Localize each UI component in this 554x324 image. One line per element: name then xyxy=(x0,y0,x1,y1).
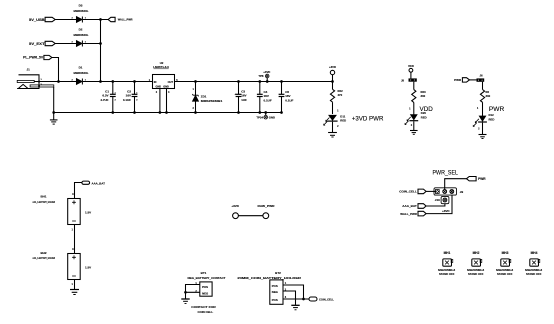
svg-text:MH4: MH4 xyxy=(531,251,538,255)
junction xyxy=(99,18,102,21)
svg-text:GND: GND xyxy=(163,86,169,89)
battery BH2 xyxy=(33,248,92,286)
wire xyxy=(445,179,467,190)
svg-text:NEG: NEG xyxy=(202,291,208,295)
mount MH2 xyxy=(467,251,485,276)
wire xyxy=(470,79,477,81)
svg-text:330: 330 xyxy=(486,94,491,98)
ground xyxy=(410,131,418,135)
svg-text:330: 330 xyxy=(421,94,426,98)
wire xyxy=(186,285,200,293)
svg-text:5V_USB: 5V_USB xyxy=(29,18,45,22)
junction xyxy=(184,291,187,294)
mount MH1 xyxy=(438,251,456,276)
ground xyxy=(328,133,337,138)
svg-text:1.5V: 1.5V xyxy=(85,210,91,214)
svg-text:20MM_COIN_BATTERY_HOLDER: 20MM_COIN_BATTERY_HOLDER xyxy=(237,276,301,280)
wire main rail xyxy=(83,81,153,83)
svg-text:COIN_CELL: COIN_CELL xyxy=(319,298,334,302)
junction xyxy=(57,80,60,83)
node VDD supply xyxy=(408,64,414,79)
svg-text:D11: D11 xyxy=(340,114,345,118)
svg-text:BH1: BH1 xyxy=(40,195,46,199)
battery BH1 xyxy=(33,193,92,232)
wire xyxy=(283,291,296,305)
node PWR input xyxy=(454,78,469,82)
wire xyxy=(482,103,484,116)
LED D20 xyxy=(405,108,427,127)
svg-text:CONTACT FOR: CONTACT FOR xyxy=(191,305,216,309)
svg-text:470: 470 xyxy=(338,93,343,97)
wire xyxy=(74,280,76,290)
note text xyxy=(191,305,216,314)
svg-text:0.1UF: 0.1UF xyxy=(123,98,131,102)
svg-text:RED: RED xyxy=(421,116,427,120)
resistor R22 xyxy=(330,89,343,103)
holder BT2 xyxy=(237,271,301,305)
jumper J6 xyxy=(477,73,485,82)
svg-text:D3: D3 xyxy=(79,3,83,7)
svg-text:PWR: PWR xyxy=(478,177,486,181)
node PL_PWR_5V xyxy=(23,55,52,59)
svg-text:POS: POS xyxy=(202,285,208,289)
wire xyxy=(83,43,101,45)
diode D2 xyxy=(72,27,89,46)
svg-text:AAA_1-BATTERY_HOLDER: AAA_1-BATTERY_HOLDER xyxy=(33,256,56,260)
svg-text:1.5V: 1.5V xyxy=(85,265,91,269)
svg-text:MBR0520L: MBR0520L xyxy=(74,33,89,37)
wire xyxy=(166,89,168,113)
svg-text:TP6: TP6 xyxy=(258,74,264,78)
wire xyxy=(159,89,161,113)
svg-text:+3VD PWR: +3VD PWR xyxy=(352,116,384,123)
junction xyxy=(302,298,305,301)
capacitor C5 xyxy=(279,80,294,114)
wire xyxy=(83,19,108,21)
resistor R20 xyxy=(412,90,426,103)
mount MH4 xyxy=(525,251,543,276)
node 5V_USB xyxy=(29,17,55,22)
wire xyxy=(283,285,304,299)
node COIN_CELL input xyxy=(399,189,426,194)
svg-text:PWR: PWR xyxy=(454,78,462,82)
ground xyxy=(50,113,58,125)
wire xyxy=(34,81,76,83)
svg-text:J5: J5 xyxy=(401,78,405,82)
svg-text:GND: GND xyxy=(156,86,162,89)
wire xyxy=(332,122,334,133)
svg-text:POS: POS xyxy=(272,284,278,288)
svg-text:MH1: MH1 xyxy=(444,251,451,255)
svg-text:RED: RED xyxy=(489,117,495,121)
svg-text:J1: J1 xyxy=(27,68,31,72)
contact BT1 xyxy=(188,271,226,296)
header J10 xyxy=(435,196,449,203)
wire main rail out xyxy=(175,81,333,83)
svg-text:GND: GND xyxy=(269,116,275,120)
capacitor C1 xyxy=(100,80,116,114)
svg-text:PL_PWR_5V: PL_PWR_5V xyxy=(23,56,44,60)
jumper J5 xyxy=(401,78,417,82)
svg-text:D2: D2 xyxy=(79,27,83,31)
ground xyxy=(70,290,79,295)
svg-text:AAA_1-BATTERY_HOLDER: AAA_1-BATTERY_HOLDER xyxy=(33,200,56,204)
regulator U2 xyxy=(149,61,178,94)
node +3VD loop xyxy=(231,204,239,219)
svg-text:0.1UF: 0.1UF xyxy=(285,98,293,102)
node AAA_BAT tag xyxy=(75,181,106,198)
svg-text:BT1: BT1 xyxy=(201,271,207,275)
svg-text:5V_EXT: 5V_EXT xyxy=(29,42,45,46)
svg-text:MBR0520L: MBR0520L xyxy=(74,9,89,13)
wire xyxy=(426,190,435,192)
svg-text:MBR0520L: MBR0520L xyxy=(74,71,89,75)
svg-text:4.7UF: 4.7UF xyxy=(100,98,108,102)
connector J1 xyxy=(17,68,54,89)
junction xyxy=(99,42,102,45)
wire xyxy=(413,121,415,130)
node WALL_PWR input xyxy=(400,211,426,216)
svg-text:COIN CELL: COIN CELL xyxy=(198,310,214,314)
svg-text:+3VD: +3VD xyxy=(329,65,336,69)
wire xyxy=(413,102,415,114)
zener ZD1 xyxy=(192,80,222,114)
svg-text:RED: RED xyxy=(340,119,346,123)
testpoint TP6 xyxy=(258,70,270,83)
ground xyxy=(181,292,189,303)
svg-text:J6: J6 xyxy=(479,73,483,77)
svg-text:OUT: OUT xyxy=(168,80,174,84)
svg-text:AAA_BAT: AAA_BAT xyxy=(402,204,417,208)
svg-text:+3VD: +3VD xyxy=(263,70,270,74)
wire xyxy=(74,225,76,254)
svg-text:BT2: BT2 xyxy=(275,271,281,275)
svg-text:AAA_BAT: AAA_BAT xyxy=(92,181,106,185)
ground xyxy=(479,135,487,139)
wire xyxy=(55,19,76,21)
svg-text:J10: J10 xyxy=(435,198,440,202)
node WALL_PWR xyxy=(108,17,133,21)
svg-text:WALL_PWR: WALL_PWR xyxy=(118,18,133,22)
svg-text:STAND OFF: STAND OFF xyxy=(526,272,542,276)
mount MH3 xyxy=(496,251,514,276)
wire xyxy=(482,123,484,135)
svg-text:1UF: 1UF xyxy=(241,98,247,102)
node 5V_EXT xyxy=(29,41,55,46)
junction xyxy=(159,111,162,114)
capacitor C4 xyxy=(257,80,272,114)
wire xyxy=(413,82,415,90)
diode D3 xyxy=(72,3,89,22)
node PWR output xyxy=(467,177,487,181)
wire xyxy=(283,298,309,300)
LED D11 xyxy=(323,109,346,128)
node +3VD supply xyxy=(329,65,336,89)
ground xyxy=(291,305,299,310)
LED D12 xyxy=(473,107,495,130)
svg-text:TP34: TP34 xyxy=(256,116,263,120)
wire xyxy=(426,204,445,206)
resistor R2 xyxy=(480,90,490,103)
svg-text:STAND OFF: STAND OFF xyxy=(439,272,455,276)
svg-text:VDD: VDD xyxy=(408,64,414,68)
node AAA_BAT input xyxy=(402,204,426,209)
junction xyxy=(165,111,168,114)
svg-text:MMSZ5233B1: MMSZ5233B1 xyxy=(201,99,223,103)
svg-text:NEG_BATTERY_CONTACT: NEG_BATTERY_CONTACT xyxy=(188,276,226,280)
svg-text:RAW_PWR: RAW_PWR xyxy=(258,204,276,208)
svg-text:+3VD: +3VD xyxy=(442,209,450,213)
svg-text:LM3671-3.3: LM3671-3.3 xyxy=(153,65,169,69)
wire xyxy=(55,43,76,45)
svg-text:J9: J9 xyxy=(460,190,464,194)
wire xyxy=(238,215,263,217)
junction xyxy=(99,80,102,83)
node RAW_PWR loop xyxy=(258,204,276,219)
wire bus xyxy=(100,20,102,82)
svg-text:STAND OFF: STAND OFF xyxy=(468,272,484,276)
svg-text:IN: IN xyxy=(154,80,157,84)
node COIN_CELL tag xyxy=(309,297,334,302)
wire xyxy=(332,103,334,114)
capacitor C2 xyxy=(123,80,138,114)
diode D1 xyxy=(72,65,89,84)
svg-text:BH2: BH2 xyxy=(40,251,46,255)
wire xyxy=(52,58,59,82)
svg-text:D12: D12 xyxy=(489,113,495,117)
svg-text:MH2: MH2 xyxy=(473,251,480,255)
capacitor C3 xyxy=(235,80,248,114)
junction xyxy=(52,111,55,114)
svg-text:COIN_CELL: COIN_CELL xyxy=(399,190,417,194)
wire xyxy=(426,195,452,214)
svg-text:D20: D20 xyxy=(421,111,427,115)
svg-text:POS: POS xyxy=(272,298,278,302)
testpoint TP34 GND xyxy=(256,111,275,119)
wire xyxy=(482,82,484,90)
svg-text:0.1UF: 0.1UF xyxy=(264,98,272,102)
wire xyxy=(53,87,55,113)
svg-text:WALL_PWR: WALL_PWR xyxy=(400,212,417,216)
header J9 xyxy=(434,188,463,195)
svg-text:PWR_SEL: PWR_SEL xyxy=(433,170,459,177)
svg-text:D1: D1 xyxy=(79,65,83,69)
svg-text:MH3: MH3 xyxy=(502,251,509,255)
svg-text:NEG: NEG xyxy=(272,290,278,294)
wire ground rail xyxy=(54,112,282,114)
svg-text:STAND OFF: STAND OFF xyxy=(497,272,513,276)
svg-text:+3VD: +3VD xyxy=(231,204,239,208)
